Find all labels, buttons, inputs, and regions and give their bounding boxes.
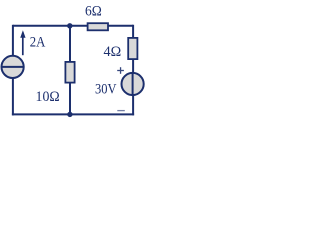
wire left branch upper — [12, 25, 14, 56]
wire right branch — [132, 25, 134, 116]
wire middle branch lower — [69, 83, 71, 114]
resistor R2 10Ω (vertical box) — [65, 62, 74, 83]
node junction dot bottom — [67, 112, 72, 117]
svg-text:6Ω: 6Ω — [85, 3, 102, 19]
polarity minus — [117, 110, 125, 112]
wire bottom (ground return) — [12, 113, 134, 115]
svg-text:4Ω: 4Ω — [104, 44, 122, 60]
current source I1 2A (circle with horizontal bar) — [2, 56, 24, 78]
resistor R3 4Ω (vertical box) — [128, 38, 137, 59]
svg-text:10Ω: 10Ω — [36, 89, 60, 105]
voltage source V1 30V (circle with vertical line through) — [122, 73, 144, 95]
wire middle branch upper — [69, 26, 71, 62]
wire top (node between sources and resistors) — [13, 25, 133, 27]
resistor R1 6Ω (horizontal box) — [88, 23, 108, 30]
svg-text:2A: 2A — [30, 35, 46, 51]
polarity plus — [117, 67, 124, 74]
wire left branch lower — [12, 79, 14, 116]
svg-text:30V: 30V — [95, 82, 117, 98]
current direction arrow (up) — [20, 30, 25, 55]
node junction dot top — [67, 23, 72, 28]
